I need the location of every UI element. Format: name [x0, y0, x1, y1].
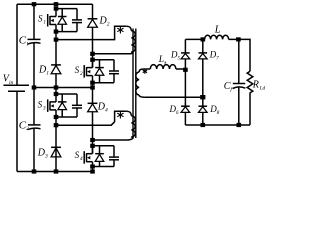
svg-text:R: R	[252, 79, 259, 90]
svg-text:S: S	[38, 13, 43, 23]
svg-text:S: S	[75, 150, 80, 160]
svg-text:3: 3	[44, 154, 48, 160]
svg-text:Ld: Ld	[259, 86, 266, 91]
svg-text:1: 1	[26, 42, 29, 47]
svg-text:in: in	[9, 80, 14, 86]
svg-text:L: L	[214, 25, 221, 36]
svg-text:5: 5	[178, 56, 181, 61]
svg-text:L: L	[158, 55, 164, 65]
svg-text:f: f	[230, 86, 233, 93]
svg-text:2: 2	[80, 71, 83, 77]
svg-text:2: 2	[107, 22, 110, 28]
svg-text:4: 4	[80, 155, 83, 162]
svg-text:1: 1	[46, 71, 49, 77]
svg-text:S: S	[38, 100, 43, 110]
svg-text:6: 6	[176, 111, 179, 116]
svg-text:1: 1	[43, 19, 46, 25]
svg-text:3: 3	[42, 106, 46, 112]
svg-text:4: 4	[105, 107, 108, 114]
svg-text:7: 7	[216, 56, 219, 61]
svg-text:S: S	[75, 65, 80, 75]
svg-text:8: 8	[217, 111, 220, 116]
